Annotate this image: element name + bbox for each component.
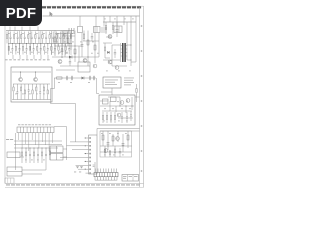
note text (124, 78, 134, 86)
resistor R40 (112, 136, 114, 141)
transistor Q7 (108, 60, 112, 64)
wire (67, 145, 86, 147)
wire (101, 91, 112, 93)
capacitor C13 (17, 32, 19, 44)
junction (20, 71, 21, 72)
wire (61, 31, 63, 55)
wire (54, 78, 56, 89)
wire (56, 69, 75, 71)
junction (85, 145, 86, 146)
wire (12, 99, 51, 101)
junction (85, 169, 86, 170)
transistor Q11 (117, 113, 121, 117)
junction (54, 45, 55, 46)
junction (35, 71, 36, 72)
capacitor C18 (116, 22, 119, 37)
resistor R28 (37, 44, 38, 55)
transistor Q5 (93, 64, 97, 68)
wire (83, 40, 99, 42)
wire (116, 169, 118, 173)
capacitor C211 (47, 44, 49, 55)
resistor R26 (29, 44, 30, 55)
wire (51, 31, 53, 55)
capacitor C28 (37, 148, 39, 163)
wire (45, 133, 47, 145)
wire (22, 173, 42, 175)
resistor R16 (28, 32, 29, 44)
wire (103, 42, 112, 44)
capacitor C19 (66, 76, 67, 80)
capacitor C43 (114, 49, 116, 58)
wire (14, 140, 62, 142)
resistor R26 (94, 45, 96, 50)
resistor R212 (51, 44, 52, 55)
wire (100, 100, 108, 102)
shield box 2 (100, 131, 132, 157)
wire (8, 43, 72, 45)
wire (103, 21, 136, 23)
wire (54, 126, 67, 128)
junction (85, 137, 86, 138)
resistor R214 (58, 44, 59, 55)
junction (22, 148, 23, 149)
transistor Q12 (104, 149, 108, 153)
wire (78, 168, 86, 170)
capacitor C11 (10, 32, 12, 44)
node ticks (64, 31, 66, 37)
wire (98, 33, 100, 57)
resistor R35 (32, 84, 33, 100)
capacitor C30 (122, 144, 125, 146)
capacitor C26 (130, 111, 132, 121)
transistor Q2 (34, 78, 38, 82)
capacitor C16 (81, 45, 84, 47)
capacitor C25 (26, 44, 28, 55)
resistor R46 (104, 146, 105, 157)
wire (57, 34, 59, 47)
junction (131, 45, 132, 46)
wire (40, 31, 42, 55)
wire (94, 169, 96, 173)
revision box (5, 178, 14, 183)
junction (30, 148, 31, 149)
wire (60, 157, 86, 159)
resistor R36 (36, 84, 37, 100)
wire (14, 27, 16, 31)
wire (100, 169, 102, 173)
transistor Q8 (115, 66, 119, 70)
junction (131, 105, 132, 106)
wire (35, 133, 37, 145)
wire (29, 27, 31, 31)
transistor Q10 (126, 99, 130, 103)
junction (107, 145, 108, 146)
wire (26, 55, 28, 59)
wire (79, 16, 81, 26)
wire (70, 141, 86, 143)
wire (51, 133, 53, 143)
wire (130, 16, 132, 66)
resistor R48 (114, 146, 115, 157)
wire (119, 97, 121, 106)
resistor R114 (56, 32, 57, 44)
junction (47, 43, 48, 44)
wire (66, 127, 68, 161)
transistor Q9 (120, 101, 124, 105)
wire (102, 131, 104, 146)
capacitor C25 (126, 112, 128, 123)
capacitor C20 (102, 27, 106, 33)
wire (19, 31, 21, 55)
wire (14, 147, 58, 149)
wire (70, 31, 72, 55)
wire (54, 77, 96, 79)
wire (100, 145, 132, 147)
wire (12, 71, 51, 73)
capacitor C42 (45, 148, 47, 163)
wire (117, 131, 119, 142)
resistor R30 (102, 112, 103, 123)
capacitor C29 (107, 143, 110, 145)
resistor R20 (8, 44, 9, 55)
wire (62, 35, 75, 37)
wire (45, 163, 47, 170)
resistor R110 (42, 32, 43, 44)
wire (81, 33, 83, 57)
wire (94, 162, 96, 173)
resistor R210 (44, 44, 45, 55)
wire (112, 134, 114, 146)
shield box (99, 95, 135, 125)
wire (28, 133, 30, 151)
node tick (69, 28, 74, 33)
resistor R24 (22, 44, 23, 55)
wire (76, 164, 86, 166)
wire (55, 45, 82, 47)
wire (67, 31, 69, 47)
wire (78, 46, 80, 62)
ic U7 (111, 97, 117, 102)
resistor R32 (110, 112, 111, 123)
wire (97, 93, 100, 95)
wire (29, 31, 31, 55)
connector CN3 (86, 135, 98, 174)
filter L1 (114, 26, 122, 33)
capacitor C34 (28, 84, 30, 100)
capacitor C17 (61, 50, 64, 52)
regulator block U3 (11, 67, 52, 102)
transistor Q6 (108, 35, 112, 39)
capacitor C27 (29, 148, 31, 163)
wire (105, 169, 107, 173)
wire (35, 72, 37, 77)
wire (63, 148, 67, 150)
wire (122, 134, 124, 152)
wire (75, 140, 77, 142)
capacitor C44 (119, 148, 121, 157)
resistor R33 (24, 84, 25, 100)
wire (131, 61, 136, 63)
capacitor C37 (39, 84, 41, 100)
capacitor C115 (59, 32, 61, 44)
ic U9 (50, 154, 63, 161)
wire (31, 133, 33, 140)
wire (14, 144, 62, 146)
capacitor C215 (61, 44, 63, 55)
capacitor C29 (40, 44, 42, 55)
ic U6 (103, 99, 109, 104)
transistor Q1 (19, 78, 23, 82)
wire (13, 83, 50, 85)
capacitor C217 (68, 44, 70, 55)
wire (127, 131, 129, 148)
wire (103, 59, 120, 61)
resistor R14 (21, 32, 22, 44)
resistor R36 (25, 148, 26, 163)
transistor Q4 (83, 59, 87, 63)
junction (34, 148, 35, 149)
resistor R40 (83, 31, 85, 42)
junction (74, 56, 75, 57)
fuse F1 (78, 27, 83, 33)
wire (109, 16, 111, 22)
capacitor C22 (89, 76, 90, 80)
capacitor C41 (69, 57, 71, 66)
resistor R216 (65, 44, 66, 55)
junction (46, 148, 47, 149)
capacitor C113 (52, 32, 54, 44)
junction (19, 43, 20, 44)
wire (118, 117, 133, 119)
resistor R37 (33, 148, 34, 163)
wire (116, 16, 118, 26)
wire (72, 149, 86, 151)
wire (100, 151, 132, 153)
wire (40, 55, 42, 59)
wire (15, 133, 17, 170)
wire (87, 31, 89, 67)
junction (62, 43, 63, 44)
connector CN8 (94, 173, 118, 181)
wire (97, 128, 140, 130)
wire (108, 96, 120, 98)
junction (12, 43, 13, 44)
junction (69, 43, 70, 44)
capacitor C24 (121, 112, 123, 123)
connector J2 (94, 27, 101, 33)
wire (106, 36, 112, 38)
resistor R34 (136, 84, 137, 102)
resistor R18 (35, 32, 36, 44)
wire (112, 65, 127, 67)
wire (12, 55, 14, 59)
resistor R116 (63, 32, 64, 44)
junction (54, 43, 55, 44)
wire (102, 110, 132, 112)
connector JP1 (17, 127, 54, 133)
wire (43, 15, 140, 17)
junction (40, 43, 41, 44)
resistor R22 (15, 44, 16, 55)
wire (51, 103, 76, 105)
junction (87, 56, 88, 57)
capacitor C23 (18, 44, 20, 55)
resistor R27 (105, 22, 106, 34)
relay K2 (7, 167, 22, 176)
wire (47, 55, 49, 59)
wire (41, 133, 43, 142)
wire (111, 88, 113, 95)
resistor R31 (106, 112, 107, 123)
wire (54, 31, 56, 57)
resistor R25 (87, 40, 89, 45)
wire (8, 31, 10, 55)
resistor R10 (6, 32, 7, 44)
capacitor C31 (93, 165, 95, 166)
capacitor C31 (16, 84, 18, 100)
wire (97, 169, 99, 173)
resistor R24 (74, 49, 76, 54)
capacitor C27 (33, 44, 35, 55)
wire (126, 22, 128, 60)
resistor R38 (41, 148, 42, 163)
wire (33, 55, 35, 59)
diode D1 (69, 56, 72, 59)
wire (115, 106, 117, 112)
wire (100, 130, 140, 132)
junction (85, 153, 86, 154)
ic U5 (103, 77, 121, 88)
ic U2 (78, 62, 90, 72)
wire (96, 78, 98, 94)
capacitor C17 (31, 32, 33, 44)
junction (61, 56, 62, 57)
wire (125, 106, 127, 113)
capacitor C23 (93, 76, 94, 80)
resistor R38 (43, 84, 44, 100)
wire (94, 33, 96, 63)
junction (26, 148, 27, 149)
wire (63, 156, 67, 158)
wire (74, 31, 76, 63)
resistor R29 (57, 77, 63, 79)
wire (95, 16, 97, 27)
ic U8 (50, 146, 63, 153)
wire (9, 27, 11, 31)
capacitor C21 (11, 44, 13, 55)
transistor Q3 (58, 60, 62, 64)
wire (61, 31, 63, 59)
wire (22, 169, 46, 171)
wire (75, 104, 77, 141)
wire (50, 89, 52, 104)
resistor R12 (13, 32, 14, 44)
resistor R39 (47, 84, 48, 100)
junction (122, 145, 123, 146)
wire (55, 33, 75, 35)
wire (109, 101, 111, 111)
resistor R118 (70, 32, 71, 44)
resistor R23 (67, 38, 69, 43)
junction (38, 148, 39, 149)
resistor R28 (112, 22, 113, 34)
junction (42, 148, 43, 149)
wire (131, 97, 133, 110)
resistor R39 (102, 135, 104, 140)
wire (19, 55, 21, 59)
wire (60, 65, 90, 67)
wire (127, 44, 131, 46)
wire (18, 133, 20, 140)
transformer T1 (121, 43, 128, 62)
cursor (50, 12, 54, 17)
wire (110, 169, 112, 173)
junction (125, 105, 126, 106)
diode D3 (107, 51, 109, 54)
wire (135, 16, 137, 62)
capacitor C111 (45, 32, 47, 44)
wire (21, 133, 23, 148)
wire (108, 169, 110, 173)
wire (135, 96, 140, 98)
relay K1 (7, 152, 20, 158)
wire (51, 88, 55, 90)
wire (21, 27, 23, 31)
junction (26, 43, 27, 44)
wire (113, 169, 115, 173)
wire (127, 59, 131, 61)
wire (38, 133, 40, 148)
resistor R30 (13, 84, 14, 100)
capacitor C21 (71, 76, 72, 80)
wire (70, 34, 72, 51)
capacitor C213 (54, 44, 56, 55)
capacitor C19 (38, 32, 40, 44)
junction (33, 43, 34, 44)
wire (112, 44, 120, 46)
resistor R33 (114, 112, 115, 123)
wire (111, 45, 113, 66)
wire (96, 129, 98, 136)
junction (85, 161, 86, 162)
title block (122, 175, 139, 182)
resistor R32 (20, 84, 21, 100)
wire (24, 133, 26, 144)
wire (48, 133, 50, 151)
wire (64, 36, 66, 57)
resistor R112 (49, 32, 50, 44)
resistor R35 (21, 148, 22, 163)
junction (131, 60, 132, 61)
capacitor C15 (24, 32, 26, 44)
resistor R22 (54, 37, 56, 42)
wire (107, 131, 109, 150)
wire (100, 105, 134, 107)
capacitor C40 (91, 33, 93, 41)
resistor R47 (109, 150, 110, 157)
wire (37, 27, 39, 31)
resistor R45 (104, 43, 105, 58)
wire (6, 30, 74, 32)
transistor Q13 (116, 137, 120, 141)
ground (77, 167, 83, 169)
diode D2 (82, 77, 85, 80)
wire (105, 57, 110, 59)
wire (102, 169, 104, 173)
wire (123, 16, 125, 25)
wire (20, 156, 24, 158)
junction (74, 45, 75, 46)
